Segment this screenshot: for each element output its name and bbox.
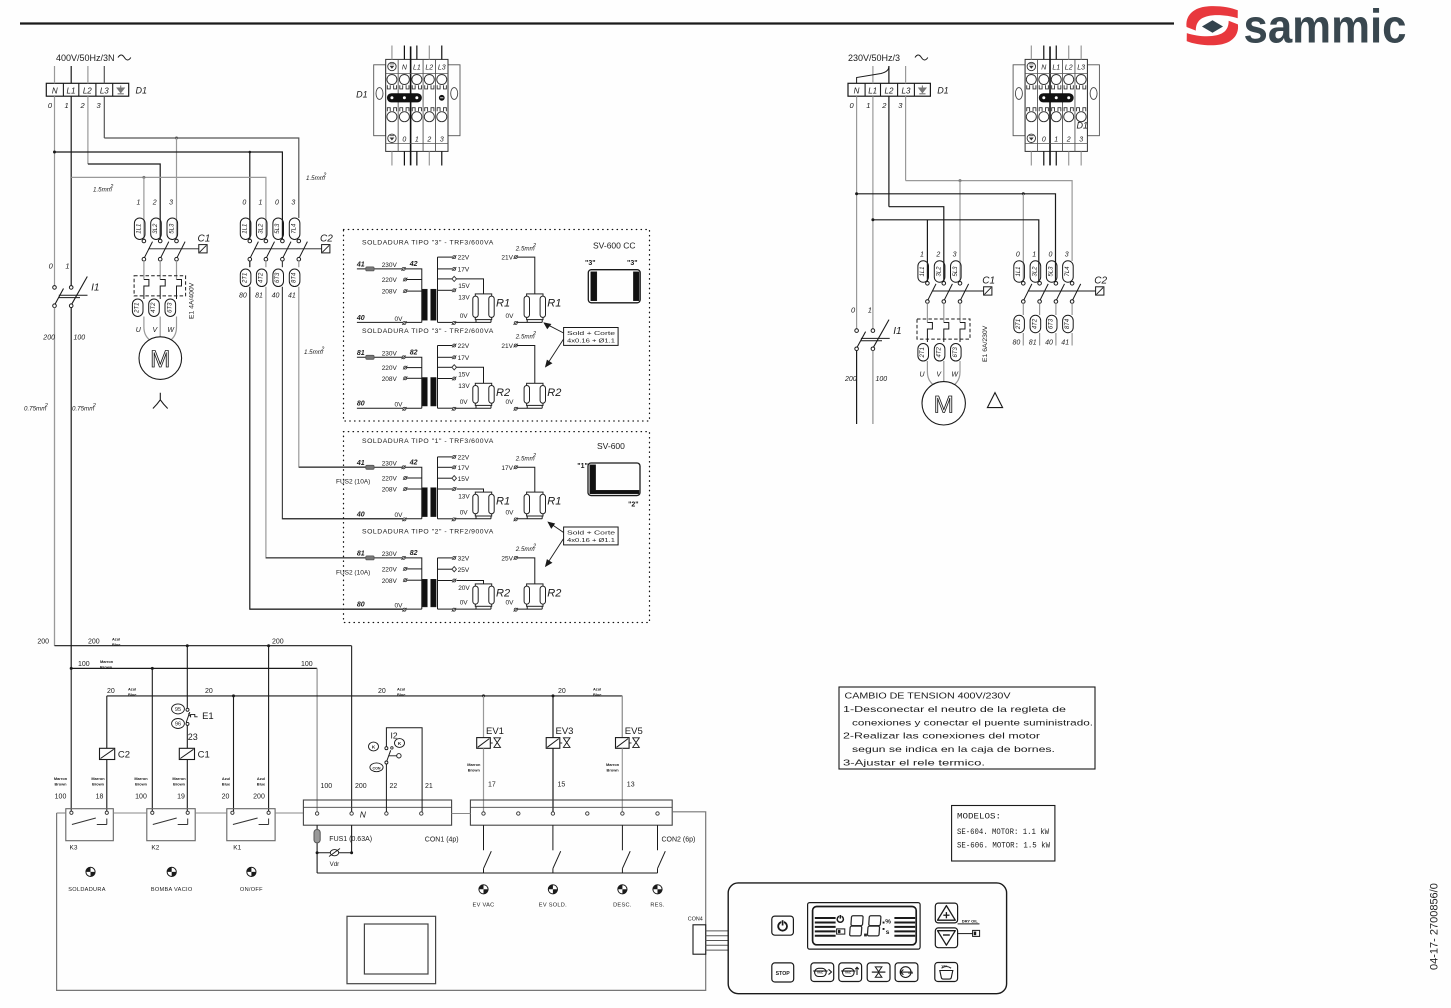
connector CON4: [693, 925, 706, 954]
svg-text:17V: 17V: [458, 355, 470, 362]
svg-text:4T2: 4T2: [1032, 318, 1038, 329]
primary 0V line: [250, 608, 422, 610]
svg-text:41: 41: [1061, 340, 1069, 347]
row L2 feed y164: [88, 164, 160, 239]
svg-text:2: 2: [320, 347, 324, 353]
node L3/C1 pole3: [175, 137, 178, 140]
svg-text:VAC: VAC: [845, 971, 852, 975]
D1 spare jumper dot: [439, 95, 444, 100]
svg-text:1L1: 1L1: [920, 266, 926, 276]
button vac run: [811, 963, 834, 982]
supply wires 230V: L1 L2 L3 plus N jumper: [872, 66, 874, 83]
wire L1 vertical (1): [70, 96, 72, 286]
svg-text:5L3: 5L3: [275, 223, 281, 234]
D1 side plates: [374, 65, 386, 136]
C2 pole 2 terminal label 3L2: [256, 218, 267, 240]
E1 thermal element (230V): [960, 323, 965, 343]
svg-text:C1: C1: [198, 750, 210, 761]
svg-text:K2: K2: [151, 845, 159, 852]
svg-text:81: 81: [255, 293, 263, 300]
lamp EV SOLD.: [548, 885, 557, 894]
svg-text:2: 2: [322, 173, 326, 179]
svg-text:SE-604. MOTOR: 1.1 kW: SE-604. MOTOR: 1.1 kW: [957, 829, 1049, 837]
primary 230V line with fuse: [357, 356, 404, 358]
svg-text:Azul: Azul: [397, 687, 405, 692]
svg-text:CON4: CON4: [688, 917, 703, 923]
wire 100 down to CON1: [316, 668, 318, 811]
C1 (230V) pole wires to E1: [926, 303, 928, 322]
up button (+): [935, 903, 957, 923]
lamp BOMBA VACIO: [167, 867, 176, 876]
row L3 feed y138: [104, 138, 298, 218]
svg-text:SOLDADURA: SOLDADURA: [68, 887, 106, 893]
svg-text:3L2: 3L2: [153, 223, 159, 234]
C1 pole 1 terminal label 1L1: [134, 218, 145, 240]
svg-text:100: 100: [135, 794, 147, 801]
svg-text:40: 40: [1045, 340, 1053, 347]
svg-text:Brown: Brown: [92, 781, 105, 786]
svg-text:D1: D1: [356, 90, 368, 100]
solenoid valve EV5: [621, 696, 623, 738]
C1 pole 1 contact: [926, 282, 930, 286]
secondary winding: [437, 457, 439, 519]
svg-text:5L3: 5L3: [169, 223, 175, 234]
svg-text:230V: 230V: [382, 461, 398, 468]
wire 23: [186, 725, 188, 748]
varistor Vdr: [316, 851, 319, 854]
svg-text:Brown: Brown: [135, 781, 148, 786]
secondary 0V tap: [452, 608, 455, 611]
svg-text:"1": "1": [577, 463, 588, 470]
svg-text:100: 100: [74, 334, 86, 341]
svg-text:2T1: 2T1: [135, 303, 141, 314]
svg-text:100: 100: [301, 661, 313, 668]
svg-text:4T2: 4T2: [151, 302, 157, 313]
svg-text:20: 20: [205, 688, 213, 695]
secondary tap 15V: [438, 278, 453, 280]
LCD digits 8.8: [850, 916, 864, 936]
primary 230V line with fuse: [357, 268, 404, 270]
callout arrows (box1): [544, 323, 563, 367]
svg-text:42: 42: [409, 261, 418, 268]
svg-text:3: 3: [1065, 252, 1069, 259]
node 20/K1: [232, 694, 235, 697]
svg-text:0.75mm: 0.75mm: [72, 406, 94, 413]
transformer core: [422, 579, 427, 607]
svg-text:Blue: Blue: [593, 692, 602, 697]
D1 jumper bar: [387, 94, 421, 102]
dashed box SV-600 CC: [344, 230, 650, 422]
svg-text:SOLDADURA TIPO "3" - TRF2/: SOLDADURA TIPO "3" - TRF2/600VA: [362, 328, 494, 335]
coil C2: [100, 748, 115, 759]
LCD right bars: [894, 918, 915, 936]
delta symbol: [987, 393, 1002, 408]
node 20/EV3: [552, 694, 555, 697]
svg-text:0V: 0V: [460, 600, 469, 607]
thermal relay E1 (6A/230V) dashed box: [917, 319, 970, 339]
LCD left bars: [815, 918, 836, 936]
svg-text:230V: 230V: [382, 551, 398, 558]
svg-text:Azul: Azul: [222, 776, 230, 781]
svg-text:Brown: Brown: [100, 665, 113, 670]
svg-text:3L2: 3L2: [1032, 266, 1038, 277]
solenoid valve EV3: [552, 696, 554, 738]
svg-text:200: 200: [355, 783, 367, 790]
svg-text:1: 1: [920, 252, 924, 259]
svg-text:21V: 21V: [501, 343, 513, 350]
svg-text:0V: 0V: [395, 603, 404, 610]
svg-text:3-Ajustar el rele termico.: 3-Ajustar el rele termico.: [843, 757, 985, 767]
wire L2 vertical (2): [87, 96, 89, 164]
svg-text:4T2: 4T2: [259, 272, 265, 283]
svg-text:0V: 0V: [506, 600, 515, 607]
svg-text:20: 20: [378, 688, 386, 695]
wire L3 vertical (3): [103, 96, 105, 138]
svg-text:1L1: 1L1: [137, 224, 143, 234]
svg-text:81: 81: [357, 350, 365, 357]
secondary tap 13V: [438, 378, 453, 380]
svg-text:42: 42: [409, 459, 418, 466]
svg-text:81: 81: [1029, 340, 1037, 347]
row L3 feed y180 (230V): [906, 181, 1073, 261]
EV return switches: [483, 825, 485, 850]
relay K2: [147, 809, 195, 841]
node 200/K1: [267, 644, 270, 647]
control panel outline: [728, 883, 1006, 994]
secondary tap 22V: [438, 456, 453, 458]
svg-text:2T1: 2T1: [920, 347, 926, 358]
resistor R2 (left): [457, 367, 484, 383]
svg-text:2: 2: [109, 184, 113, 190]
node 100/K2: [151, 667, 154, 670]
callout Sold/Corte (box1): [564, 328, 619, 346]
svg-text:1.5mm: 1.5mm: [306, 175, 325, 182]
wires 200/100 below I1 (230V, open ended): [856, 351, 858, 424]
svg-text:C1: C1: [982, 276, 995, 287]
button vac jars: [839, 963, 862, 982]
svg-text:C2: C2: [118, 750, 130, 761]
svg-text:1: 1: [1054, 136, 1058, 143]
svg-text:3: 3: [1079, 136, 1083, 143]
svg-text:Blue: Blue: [128, 692, 137, 697]
svg-text:Vdr: Vdr: [330, 861, 340, 868]
C1 actuator link: [932, 290, 984, 292]
svg-text:1.5mm: 1.5mm: [93, 187, 112, 194]
svg-text:2T1: 2T1: [1016, 319, 1022, 330]
C2 pole 2 contact: [1038, 282, 1042, 286]
svg-text:CON: CON: [373, 766, 381, 770]
node N/C2 pole1: [249, 151, 252, 154]
svg-text:VAC: VAC: [942, 964, 949, 968]
svg-text:Marron: Marron: [172, 776, 186, 781]
Sammic logo: [1186, 6, 1238, 45]
svg-text:200: 200: [272, 639, 284, 646]
svg-text:Brown: Brown: [607, 767, 620, 772]
secondary tap 25V: [438, 568, 453, 570]
E1 thermal element (230V): [944, 323, 949, 343]
wire 100 below I1: [70, 308, 72, 669]
C2 (230V) output terminals: [1022, 303, 1024, 315]
lamp EV VAC: [479, 885, 488, 894]
svg-text:0V: 0V: [506, 399, 515, 406]
C1 pole 3 contact: [958, 282, 962, 286]
svg-text:FUS2 (10A): FUS2 (10A): [336, 570, 370, 577]
wire 200 down to CON1: [351, 646, 353, 812]
svg-text:0V: 0V: [460, 399, 469, 406]
svg-text:7L4: 7L4: [1065, 266, 1071, 277]
svg-text:C2: C2: [1094, 276, 1107, 287]
svg-text:220V: 220V: [382, 277, 398, 284]
C1 coil box: [984, 287, 992, 295]
C1 pole 3 contact: [175, 239, 179, 243]
E1 thermal element: [177, 280, 182, 300]
svg-text:CAMBIO DE TENSION 400V/230V: CAMBIO DE TENSION 400V/230V: [845, 691, 1012, 701]
svg-text:L3: L3: [902, 87, 911, 96]
callout arrows (box2): [546, 522, 564, 566]
E1 auxiliary contact 95/96: [186, 646, 188, 708]
svg-text:2: 2: [881, 101, 887, 110]
svg-text:100: 100: [78, 661, 90, 668]
MODELOS text box: [952, 806, 1055, 862]
svg-text:Marron: Marron: [467, 762, 481, 767]
secondary winding: [437, 558, 439, 609]
svg-text:4T2: 4T2: [937, 346, 943, 357]
svg-text:D1: D1: [1076, 121, 1088, 131]
C2 output terminals 2T1 4T2 6T3 8T4: [249, 261, 251, 267]
svg-text:2: 2: [44, 403, 48, 409]
wire 20 rail corner to EV5: [621, 696, 623, 738]
secondary tap 17V: [438, 268, 453, 270]
dashed box SV-600: [344, 432, 650, 623]
svg-text:SV-600 CC: SV-600 CC: [593, 241, 636, 251]
secondary tap 20V: [438, 580, 453, 582]
svg-text:200: 200: [42, 334, 55, 341]
C2 pole 3 terminal label 5L3: [1046, 261, 1057, 283]
svg-text:1: 1: [866, 101, 870, 110]
svg-text:L1: L1: [1052, 65, 1060, 72]
svg-text:1: 1: [415, 136, 419, 143]
svg-text:K3: K3: [70, 845, 78, 852]
secondary 0V tap: [452, 518, 455, 521]
resistor R1 (left): [457, 489, 484, 492]
svg-text:1: 1: [136, 200, 140, 207]
svg-text:208V: 208V: [382, 578, 398, 585]
svg-text:L3: L3: [438, 65, 446, 72]
svg-text:0V: 0V: [395, 512, 404, 519]
svg-text:400V/50Hz/3N: 400V/50Hz/3N: [56, 53, 115, 63]
svg-text:"3": "3": [627, 260, 638, 267]
node 20/EV1: [482, 694, 485, 697]
row L1 feed y220 (230V): [873, 220, 1039, 282]
svg-text:19: 19: [177, 794, 185, 801]
svg-text:80: 80: [1013, 340, 1021, 347]
C1 pole 2 terminal label 3L2: [934, 261, 945, 283]
down button (-): [935, 928, 957, 948]
CAMBIO DE TENSION text box: [839, 687, 1095, 769]
svg-text:M: M: [934, 391, 954, 418]
C2 pole 3 contact: [1054, 282, 1058, 286]
node 100/K3: [70, 667, 73, 670]
svg-text:0.75mm: 0.75mm: [24, 406, 46, 413]
button vac hose: [935, 963, 958, 982]
svg-text:STOP: STOP: [776, 971, 791, 977]
svg-text:1.5mm: 1.5mm: [304, 349, 323, 356]
svg-text:6T3: 6T3: [1049, 318, 1055, 329]
terminal strip D1 (schematic, 230V side): [848, 83, 930, 96]
svg-text:0: 0: [402, 136, 406, 143]
svg-text:Brown: Brown: [468, 767, 481, 772]
svg-text:SOLDADURA TIPO "1" - TRF3/: SOLDADURA TIPO "1" - TRF3/600VA: [362, 438, 494, 445]
svg-text:6T3: 6T3: [275, 272, 281, 283]
svg-text:2.5mm: 2.5mm: [515, 546, 535, 553]
lamp SOLDADURA: [86, 867, 95, 876]
motor lead V: [159, 317, 161, 337]
svg-text:R2: R2: [496, 387, 510, 399]
svg-text:3: 3: [953, 252, 957, 259]
svg-text:15V: 15V: [458, 372, 470, 379]
svg-text:R1: R1: [496, 496, 510, 508]
svg-text:3L2: 3L2: [937, 266, 943, 277]
svg-text:41: 41: [288, 293, 296, 300]
E1 thermal element: [144, 280, 149, 300]
primary 230V line with fuse: [266, 557, 404, 559]
svg-text:0V: 0V: [395, 402, 404, 409]
C1 pole 2 contact: [158, 239, 162, 243]
svg-text:Azul: Azul: [593, 687, 601, 692]
svg-text:VAC: VAC: [817, 971, 824, 975]
C2 coil box: [1096, 287, 1104, 295]
C1 output terminals 2T1 4T2 6T3: [132, 299, 143, 317]
svg-text:Blue: Blue: [112, 642, 121, 647]
svg-text:DESC.: DESC.: [613, 903, 632, 909]
C1 actuator link: [148, 248, 198, 250]
svg-text:"3": "3": [585, 260, 596, 267]
C2 wire 41 to TRF (tipo1): [299, 287, 366, 467]
solenoid valve EV1: [483, 696, 485, 738]
svg-text:5L3: 5L3: [1049, 266, 1055, 277]
svg-text:25V: 25V: [501, 556, 513, 563]
svg-text:82: 82: [410, 349, 418, 356]
C1 pole 1 contact: [142, 239, 146, 243]
wire 200 below I1: [54, 308, 56, 646]
svg-text:Blue: Blue: [257, 781, 266, 786]
C1 pole 3 terminal label 5L3: [167, 218, 178, 240]
svg-text:2: 2: [935, 252, 940, 259]
svg-text:L2: L2: [83, 87, 92, 96]
svg-text:1: 1: [1032, 252, 1036, 259]
svg-text:22V: 22V: [458, 343, 470, 350]
svg-text:8T4: 8T4: [1065, 318, 1071, 329]
switch I2: [386, 728, 422, 812]
svg-text:N: N: [360, 810, 367, 820]
svg-text:conexiones y conectar el puent: conexiones y conectar el puente suminist…: [852, 717, 1093, 727]
connector CON2 (6p): [470, 800, 672, 825]
C2 coil box: [322, 245, 330, 253]
svg-text:220V: 220V: [382, 365, 398, 372]
svg-text:41: 41: [356, 460, 365, 467]
C2 pole 3 terminal label 5L3: [273, 218, 284, 240]
svg-text:L2: L2: [425, 65, 433, 72]
C1 pole 3 terminal label 5L3: [951, 261, 962, 283]
secondary winding: [437, 257, 439, 322]
svg-text:17V: 17V: [458, 267, 470, 274]
LCD display: [808, 903, 921, 950]
svg-text:25V: 25V: [458, 567, 470, 574]
svg-text:0V: 0V: [460, 313, 469, 320]
svg-text:22: 22: [390, 783, 398, 790]
resistor R1 (left): [457, 279, 484, 294]
svg-text:6T3: 6T3: [167, 302, 173, 313]
power button: [772, 916, 794, 935]
C2 pole 2 terminal label 3L2: [1030, 261, 1041, 283]
svg-text:EV1: EV1: [486, 726, 504, 737]
lamp ON/OFF: [247, 867, 256, 876]
earth symbol in strip: [117, 86, 124, 94]
row N feed y194 (230V): [857, 194, 1056, 282]
svg-text:17V: 17V: [501, 465, 513, 472]
svg-text:6T3: 6T3: [953, 346, 959, 357]
C1 coil box: [199, 245, 207, 253]
EV return bus: [317, 872, 657, 874]
svg-text:FUS1 (0.63A): FUS1 (0.63A): [329, 836, 372, 843]
lamp RES.: [653, 885, 662, 894]
node N/C2 pole1 (230V): [1022, 192, 1025, 195]
wire N vertical (0): [54, 96, 56, 286]
svg-text:230V: 230V: [382, 262, 398, 269]
svg-text:4x0.16 + Ø1.1: 4x0.16 + Ø1.1: [567, 339, 615, 345]
row L1 feed y177: [71, 177, 266, 239]
svg-text:208V: 208V: [382, 376, 398, 383]
svg-text:22V: 22V: [458, 255, 470, 262]
svg-text:1: 1: [258, 200, 262, 207]
right verticals below strip: [856, 96, 858, 329]
svg-text:2-Realizar las conexiones del: 2-Realizar las conexiones del motor: [843, 731, 1040, 741]
svg-text:R1: R1: [547, 297, 561, 309]
svg-text:M: M: [150, 346, 170, 373]
svg-text:0: 0: [242, 200, 246, 207]
primary 0V line: [357, 321, 422, 323]
rail 100 (marron/brown): [71, 667, 317, 669]
svg-text:208V: 208V: [382, 289, 398, 296]
svg-text:20: 20: [107, 688, 115, 695]
svg-text:2: 2: [532, 453, 536, 459]
coil C1: [179, 748, 194, 759]
svg-text:"2": "2": [628, 502, 639, 509]
motor lead U: [144, 317, 151, 341]
transformer core: [422, 289, 427, 320]
svg-text:DRY OIL: DRY OIL: [962, 919, 979, 924]
touch window (double rectangle): [347, 916, 436, 983]
relay interconnect wires: [57, 812, 66, 814]
STOP button: [772, 963, 794, 982]
svg-text:K1: K1: [233, 845, 241, 852]
svg-text:4x0.16 + Ø1.1: 4x0.16 + Ø1.1: [567, 538, 615, 544]
relay K3: [66, 809, 114, 841]
secondary 0V tap: [452, 322, 455, 325]
svg-text:20V: 20V: [458, 585, 470, 592]
svg-text:segun se indica en la caja de: segun se indica en la caja de bornes.: [852, 744, 1055, 754]
terminal block D1 (physical view): [1013, 46, 1099, 165]
svg-text:2.5mm: 2.5mm: [515, 245, 535, 252]
svg-text:3: 3: [440, 136, 444, 143]
svg-text:13: 13: [627, 782, 635, 789]
svg-text:Blue: Blue: [397, 692, 406, 697]
svg-text:15V: 15V: [458, 283, 470, 290]
svg-text:C1: C1: [198, 234, 211, 245]
svg-text:2: 2: [426, 136, 431, 143]
C2 pole 1 terminal label 1L1: [1014, 261, 1025, 283]
svg-text:ON/OFF: ON/OFF: [240, 887, 263, 893]
